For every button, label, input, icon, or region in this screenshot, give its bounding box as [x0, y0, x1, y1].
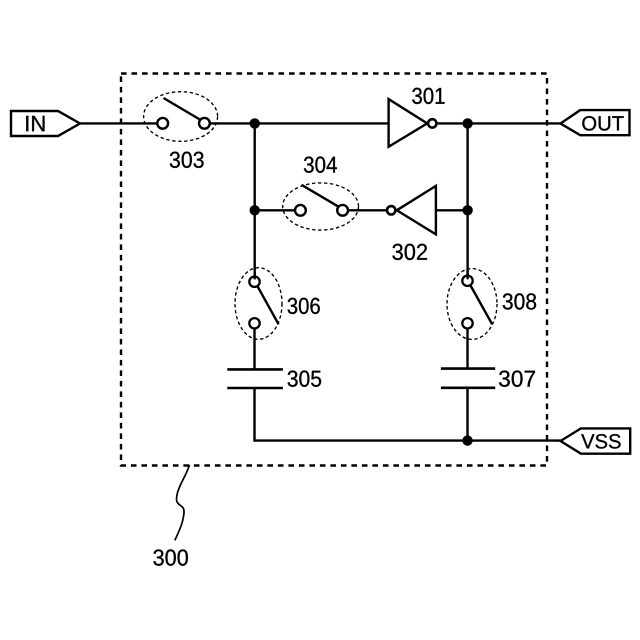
inverter 301: [389, 99, 437, 147]
terminal tag IN: [11, 111, 80, 136]
node E junction dot (bottom rail): [462, 435, 472, 445]
switch 304: [295, 185, 348, 216]
wire inverter 302 to node D: [436, 209, 468, 211]
dashed ellipse around switch 306: [235, 268, 282, 340]
label 305: [288, 371, 322, 387]
terminal tag VSS: [561, 428, 631, 453]
node A junction dot (row1, left column): [250, 118, 260, 128]
wire capacitor 305 to bottom rail: [255, 388, 561, 441]
wire inverter 301 to OUT: [438, 122, 561, 124]
wire stub into switch 308 top contact: [466, 271, 468, 279]
switch 308 (vertical): [462, 276, 492, 329]
wire IN to switch 303: [80, 122, 158, 124]
inverter 302 (pointing left): [387, 186, 436, 235]
wire left column vertical (node A down to switch 306): [253, 123, 255, 277]
terminal tag OUT: [561, 110, 630, 135]
label 300: [153, 549, 188, 565]
wire right column vertical (node B down to switch 308): [466, 123, 468, 276]
node B junction dot (row1, right column): [462, 118, 472, 128]
wire switch 303 to inverter 301: [210, 122, 388, 124]
label 303: [170, 152, 204, 168]
label 301: [412, 88, 444, 104]
dashed ellipse around switch 303: [144, 92, 218, 142]
dashed ellipse around switch 308: [447, 269, 497, 340]
wire capacitor 307 to bottom rail: [466, 388, 468, 441]
label 307: [499, 371, 535, 387]
wire stub into switch 306 top contact: [253, 272, 255, 279]
capacitor 305: [227, 369, 283, 388]
wire switch 304 to inverter 302 output bubble: [348, 209, 387, 211]
label 304: [304, 157, 337, 173]
label 306: [288, 298, 320, 314]
wire node C to switch 304: [255, 209, 296, 211]
node D junction dot (row2, right column): [462, 205, 472, 215]
label 302: [392, 244, 427, 260]
dashed boundary box of circuit 300: [121, 74, 547, 466]
wire switch 308 to capacitor 307: [466, 329, 468, 369]
wire switch 306 to capacitor 305: [253, 329, 255, 370]
capacitor 307: [441, 369, 495, 388]
dashed ellipse around switch 304: [283, 183, 359, 230]
switch 306 (vertical): [249, 277, 278, 329]
label 308: [503, 293, 536, 309]
node C junction dot (row2, left column): [250, 205, 260, 215]
leader squiggle to label 300: [175, 465, 190, 541]
switch 303: [157, 98, 210, 129]
